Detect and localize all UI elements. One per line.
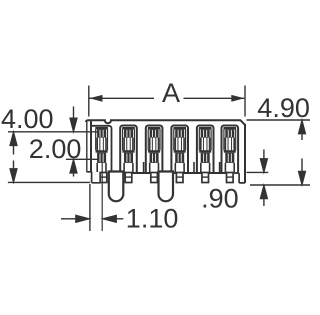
.90 dimension arrows (261, 150, 268, 207)
dimension A arrowhead left (89, 95, 102, 102)
1.10 extension line right (101, 163, 103, 231)
dimension A extension line right (244, 86, 246, 117)
4.90 top reference line (247, 119, 311, 121)
housing right wall (244, 124, 246, 183)
svg-text:4.90: 4.90 (257, 93, 310, 123)
contact cavity 5 (197, 126, 214, 173)
.90 reference line (247, 171, 269, 173)
housing left outer lip (86, 122, 88, 173)
housing bottom edge segments (123, 172, 237, 174)
1.10 dimension arrows (61, 215, 123, 222)
contact cavity 6 (222, 126, 239, 173)
svg-text:A: A (162, 78, 180, 108)
partition wall 4/5 (193, 162, 195, 172)
svg-text:.90: .90 (201, 183, 239, 213)
locating peg 2 (159, 172, 174, 202)
4.00 dimension arrows (10, 132, 17, 181)
svg-text:1.10: 1.10 (126, 204, 179, 234)
2.00 reference line (66, 158, 98, 160)
housing right foot (237, 173, 245, 183)
solder tail 4 (176, 173, 183, 183)
solder tail 6 (227, 173, 234, 183)
solder tail 2 (125, 173, 132, 183)
contact cavity 1 (custom outline against left wall) (91, 126, 112, 173)
solder tail 1 (100, 173, 107, 183)
solder tail 5 (202, 173, 209, 183)
solder tail 3 (151, 173, 158, 183)
housing left foot (87, 172, 101, 183)
4.00 reference line (8, 131, 98, 133)
4.90 dimension arrows (299, 121, 306, 185)
housing left wall (90, 121, 92, 173)
svg-text:4.00: 4.00 (1, 104, 54, 134)
locating peg 1 (109, 172, 124, 202)
housing top edge with keying notch and right chamfer (86, 120, 245, 125)
partition wall 5/6 (219, 162, 221, 172)
dimension A extension line left (88, 86, 90, 117)
2.00 dimension arrows (70, 107, 77, 177)
dimension A arrowhead right (231, 95, 244, 102)
dimension A line (90, 97, 155, 99)
1.10 extension line left (89, 184, 91, 231)
contact cavity 2 (120, 126, 137, 173)
partition wall 2/3 (143, 162, 145, 172)
svg-text:2.00: 2.00 (29, 134, 82, 164)
4.00 bottom reference line (8, 181, 90, 183)
contact cavity 3 (146, 126, 163, 173)
contact cavity 4 (171, 126, 188, 173)
4.90 bottom reference line (250, 184, 310, 186)
